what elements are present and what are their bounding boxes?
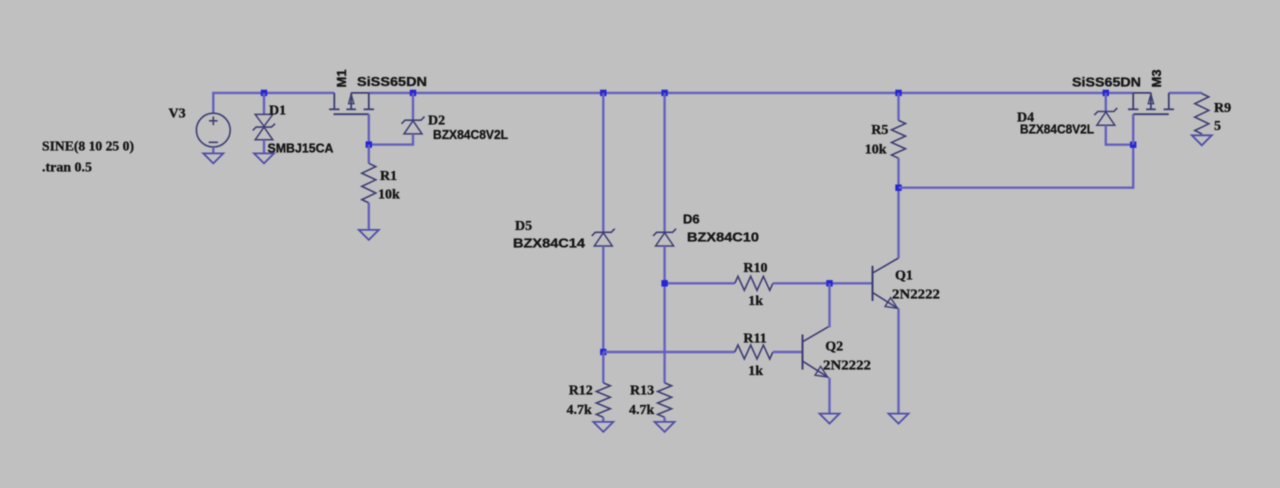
wire R13 to ground — [663, 417, 665, 422]
svg-text:BZX84C8V2L: BZX84C8V2L — [1020, 122, 1094, 137]
svg-text:D1: D1 — [269, 103, 286, 118]
zener diode D5 BZX84C14 — [592, 229, 615, 246]
svg-text:R12: R12 — [569, 384, 593, 399]
wire D2 to gate node — [369, 134, 413, 145]
resistor R5 10k — [892, 120, 906, 158]
wire D5 to R11 row — [602, 246, 604, 352]
svg-text:R9: R9 — [1214, 101, 1231, 116]
svg-text:4.7k: 4.7k — [567, 403, 593, 418]
svg-text:4.7k: 4.7k — [629, 403, 655, 418]
wire to D2 — [412, 93, 414, 120]
ground R1 — [359, 230, 379, 240]
wire M1 gate down — [368, 114, 370, 144]
svg-text:SiSS65DN: SiSS65DN — [357, 74, 427, 89]
svg-text:1k: 1k — [748, 294, 763, 309]
resistor R1 10k — [362, 163, 376, 203]
svg-text:2N2222: 2N2222 — [823, 359, 871, 374]
svg-text:M1: M1 — [334, 69, 349, 87]
node R10/Q2 collector — [826, 280, 832, 286]
zener diode D6 BZX84C10 — [653, 229, 676, 246]
wire R1 to ground — [368, 203, 370, 230]
svg-text:2N2222: 2N2222 — [892, 287, 940, 302]
node D1 top — [261, 90, 267, 96]
transistor Q1 2N2222 — [873, 258, 899, 309]
zener diode D2 BZX84C8V2L — [402, 117, 425, 134]
svg-text:BZX84C14: BZX84C14 — [513, 235, 586, 250]
zener diode D4 BZX84C8V2L — [1094, 108, 1117, 125]
wire R5 to node — [897, 158, 899, 188]
svg-text:R5: R5 — [871, 123, 888, 138]
svg-text:BZX84C8V2L: BZX84C8V2L — [433, 127, 508, 142]
node D2 top — [410, 90, 416, 96]
svg-text:R11: R11 — [743, 331, 766, 346]
wire R5 node to M3 gate node — [899, 145, 1134, 188]
node D6 top — [661, 90, 667, 96]
wire Q1 emitter to ground — [897, 309, 899, 414]
wire R10 to Q1 base — [773, 282, 873, 284]
svg-text:R1: R1 — [380, 169, 397, 184]
node D5/R11/R12 — [600, 349, 606, 355]
voltage source V3 — [196, 113, 230, 147]
wire rail to R5 — [897, 93, 899, 121]
svg-text:Q1: Q1 — [895, 269, 913, 284]
resistor R11 1k — [735, 345, 773, 359]
wire V3 to ground — [212, 147, 214, 153]
wire node to R1 — [368, 145, 370, 164]
wire D6 down to R13 — [663, 246, 665, 383]
svg-text:Q2: Q2 — [825, 340, 843, 355]
node D6/R10 — [661, 280, 667, 286]
wire Q2 emitter to ground — [828, 378, 830, 414]
wire D1 to ground — [263, 140, 265, 154]
wire to D1 — [263, 93, 265, 115]
node D4 top — [1103, 90, 1109, 96]
wire D4 to M3 gate node — [1106, 125, 1133, 145]
wire V3 top to M1 drain — [213, 93, 334, 113]
transistor Q2 2N2222 — [803, 327, 829, 378]
nmos M3 SiSS65DN — [1128, 93, 1174, 114]
svg-text:R10: R10 — [743, 261, 767, 276]
ground V3 — [203, 153, 223, 163]
ground D1 — [254, 153, 274, 163]
wire R12 to ground — [602, 417, 604, 422]
wire D5 node to R11 — [603, 351, 735, 353]
ground R9 — [1192, 135, 1212, 145]
wire Q1 collector to R5 — [897, 188, 899, 259]
node R5/Q1/M3-gate run — [895, 185, 901, 191]
wire D6 node to R10 — [665, 282, 735, 284]
TVS diode D1 SMBJ15CA — [253, 114, 275, 139]
wire M1 source to M3 source rail — [369, 92, 1133, 94]
svg-text:D5: D5 — [515, 219, 532, 234]
svg-text:5: 5 — [1214, 119, 1221, 134]
wire node to R12 — [602, 352, 604, 383]
svg-text:SINE(8 10 25 0): SINE(8 10 25 0) — [42, 139, 134, 154]
ground R13 — [655, 422, 675, 432]
resistor R9 5 — [1195, 94, 1209, 134]
wire rail to D5 — [602, 93, 604, 232]
wire M3 gate down — [1132, 114, 1134, 145]
ground R12 — [593, 422, 613, 432]
svg-text:.tran 0.5: .tran 0.5 — [42, 161, 92, 176]
ground Q2 — [820, 414, 840, 424]
svg-text:10k: 10k — [378, 188, 400, 203]
resistor R12 4.7k — [596, 383, 610, 417]
wire M3 drain to R9 — [1169, 92, 1202, 94]
wire rail to D6 — [663, 93, 665, 232]
resistor R13 4.7k — [658, 383, 672, 417]
svg-text:D6: D6 — [683, 212, 700, 227]
node M1 gate / R1 — [366, 141, 372, 147]
svg-text:M3: M3 — [1149, 69, 1164, 87]
node M3 gate — [1130, 142, 1136, 148]
svg-text:V3: V3 — [169, 107, 186, 122]
svg-text:SMBJ15CA: SMBJ15CA — [268, 140, 335, 155]
svg-text:BZX84C10: BZX84C10 — [687, 230, 759, 245]
wire R11 to Q2 base — [773, 351, 803, 353]
svg-text:1k: 1k — [748, 364, 763, 379]
nmos M1 SiSS65DN — [329, 93, 374, 114]
node R5 top — [895, 90, 901, 96]
wire R9 to ground — [1201, 134, 1203, 135]
svg-text:10k: 10k — [865, 143, 887, 158]
wire Q2 collector up — [828, 283, 830, 327]
ground Q1 — [889, 414, 909, 424]
svg-text:SiSS65DN: SiSS65DN — [1072, 75, 1141, 90]
svg-text:R13: R13 — [630, 384, 654, 399]
resistor R10 1k — [735, 276, 773, 290]
wire rail to D4 — [1105, 93, 1107, 112]
node D5 top — [600, 90, 606, 96]
